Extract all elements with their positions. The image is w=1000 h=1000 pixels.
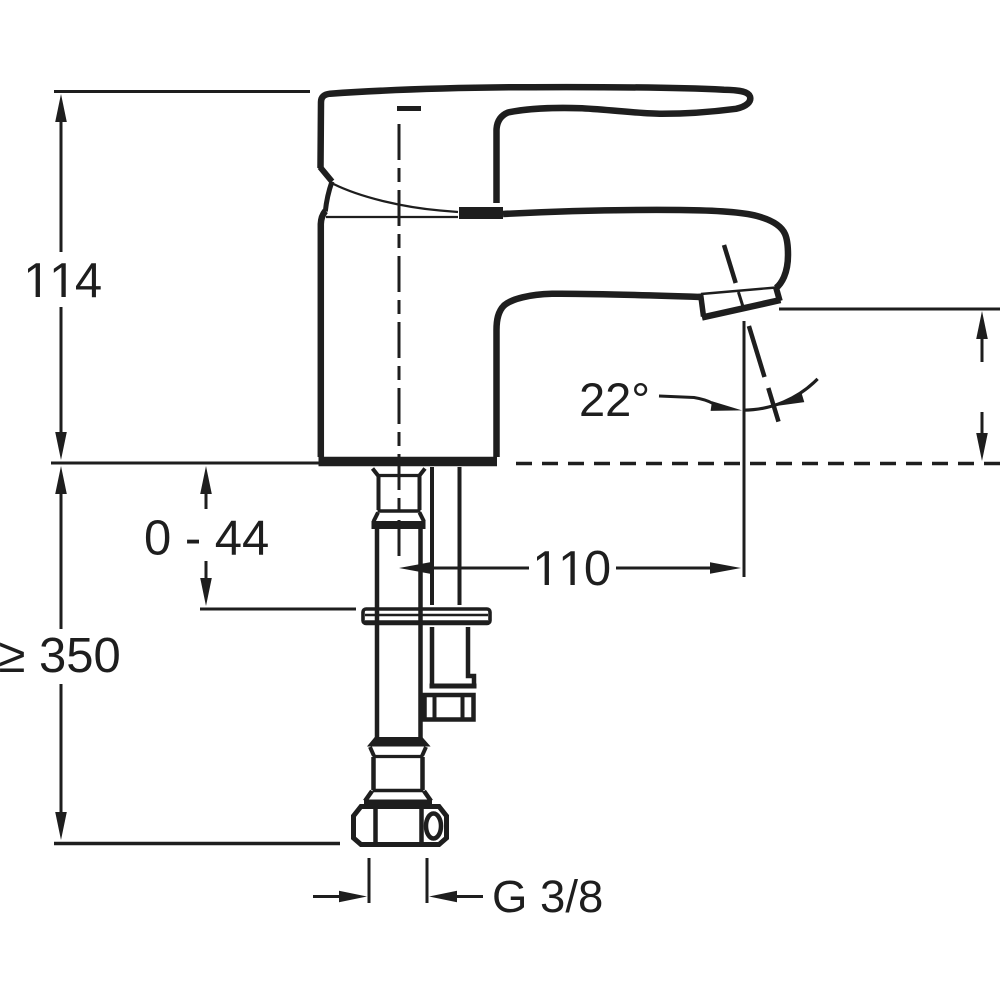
label 110 digit 1 [537,551,549,585]
handle skirt jog on left [320,167,332,182]
body bottom thick bar [319,457,498,467]
dim 114 top extension line [54,90,310,93]
dim 0-44 upper arrow [200,466,212,494]
shank collar tapered sides [374,513,425,522]
tailpiece taper-in sides [370,747,426,756]
faucet handle lever outline [321,87,751,203]
main shank tube lines [377,529,421,739]
shank neck top line [377,474,421,477]
mounting flange outline [363,609,490,624]
supply nut side hole ellipse [426,814,441,839]
spout tip slanted dashed axis [724,245,736,283]
label 114 digit 1 [28,263,40,297]
flange inner line [365,614,488,616]
leader arrowhead [711,401,742,411]
dim 350 lower arrow [55,812,67,840]
valve hex nut face lines [435,695,463,719]
svg-text:4: 4 [75,254,102,308]
shank neck side lines [379,476,420,510]
leader line from 22 label [659,396,713,404]
dim G3/8 extension lines [369,858,427,903]
vertical dashed centerline [398,124,401,559]
svg-text:G 3/8: G 3/8 [492,871,603,922]
svg-text:0 - 44: 0 - 44 [144,512,269,566]
flange thick bottom line [365,620,488,625]
aerator face right join [776,288,780,302]
dim 114 upper arrow [55,94,67,122]
tailpiece step line [373,789,424,792]
valve block below flange [432,627,474,684]
aerator face bottom thick line [702,300,781,318]
valve block bottom bar [430,684,477,689]
spout height dim lower arrow [976,433,988,461]
spout tip vertical reference line [743,321,746,577]
shank neck chamfer shoulders [373,469,426,476]
svg-text:0: 0 [584,542,611,596]
svg-text:≥ 350: ≥ 350 [0,629,121,683]
faucet body left edge [321,211,326,457]
spout top edge and right end curve [503,210,788,288]
handle base thick bar [459,207,503,219]
tailpiece taper shoulder line [373,755,423,758]
tailpiece lower flare sides [365,791,431,801]
aerator face top thin line [701,288,776,295]
valve hex nut [425,695,474,720]
angle arc 22 degrees [744,379,818,410]
shank neck bottom line [378,509,421,513]
label 110 digit 1 second [563,551,575,585]
svg-text:22°: 22° [579,373,650,426]
angle arc arrowhead at dashed axis [774,393,804,406]
shank collar thick bottom bar [372,521,426,529]
dim 110 line right arrow [710,562,741,574]
dim G3/8 left arrow [339,891,367,903]
supply hex nut outline [354,807,447,845]
handle skirt left edge [325,182,332,212]
dim 110 line left arrow [399,562,430,574]
handle top indicator tick [397,106,421,111]
dim 0-44 bottom extension line [200,608,356,611]
dim 350 upper arrow [55,466,67,494]
spout underside and body right edge [497,294,701,457]
dim 114 lower arrow [55,432,67,460]
label 114 digit 1 second [54,263,66,297]
aerator face left cap [701,294,704,317]
dim G3/8 right arrow [429,891,457,903]
tailpiece upper flare [368,738,430,747]
handle skirt thin seam curve [334,184,459,212]
tailpiece lower flare thick bar [364,800,432,806]
reference baseline right dashed [516,462,1000,466]
body top thin line [326,216,458,218]
dim 350 bottom extension line [54,842,340,845]
spout height dim upper arrow [976,311,988,339]
reference baseline left solid [51,462,330,465]
spout height extension line [779,308,1000,311]
supply hex nut face lines [376,808,422,843]
dim 0-44 lower arrow [200,578,212,606]
drain valve tube lines [432,467,460,605]
tailpiece cylinder sides [374,757,423,790]
